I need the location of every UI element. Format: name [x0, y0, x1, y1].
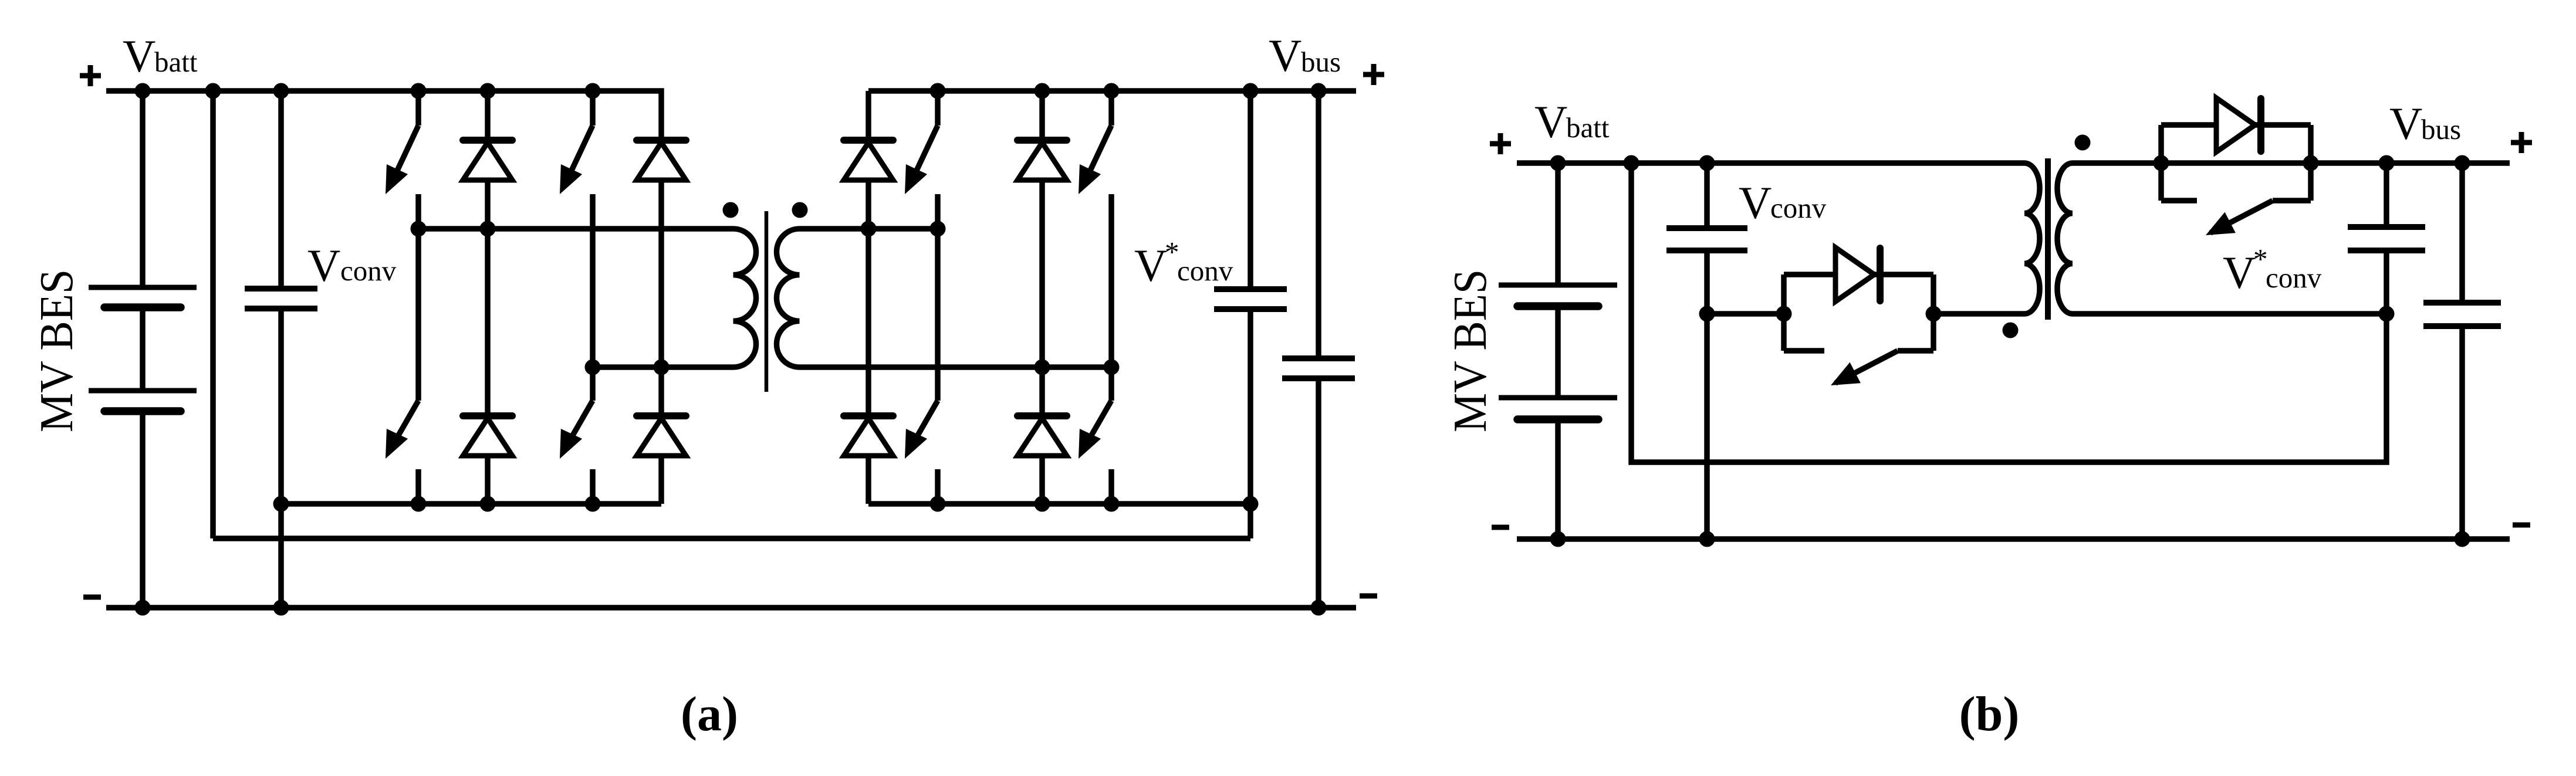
capacitor Vconv (b)	[1666, 228, 1747, 250]
battery MV BES (b)	[1499, 285, 1617, 419]
diode D10 (b)	[2216, 98, 2261, 152]
svg-text:MV BES: MV BES	[31, 269, 83, 432]
svg-text:batt: batt	[1566, 111, 1610, 144]
switch S4 (a)	[560, 401, 593, 459]
diode D4 (a)	[637, 416, 686, 456]
wire switch S3 column (a)	[590, 91, 596, 504]
wire combo box secondary (b)	[2161, 125, 2311, 201]
capacitor V*conv (a)	[1214, 289, 1287, 309]
junction dots (a)	[135, 83, 1327, 616]
svg-text:V: V	[307, 240, 340, 291]
node polarity dot primary (a)	[723, 202, 739, 218]
wire series-link column (a)	[210, 91, 216, 538]
svg-text:conv: conv	[1177, 255, 1233, 287]
wire secondary rail + winding L4 (b)	[2057, 163, 2510, 314]
svg-text:(b): (b)	[1959, 687, 2020, 741]
svg-text:batt: batt	[154, 46, 198, 78]
junction dots (b)	[1550, 155, 2470, 547]
wire secondary mid line + winding L2 (a)	[776, 229, 1111, 367]
switch Q2 (b)	[2206, 201, 2273, 235]
wire Vbus capacitor column (a)	[1316, 91, 1321, 608]
svg-text:V: V	[1134, 240, 1167, 291]
switch S2 (a)	[386, 401, 418, 459]
switch S1 (a)	[386, 126, 418, 194]
svg-text:(a): (a)	[681, 687, 738, 741]
switch S7 (a)	[1079, 126, 1111, 194]
svg-text:V: V	[123, 31, 155, 82]
node + terminal Vbatt (b)	[1490, 133, 1511, 154]
switch S3 (a)	[560, 126, 593, 194]
node + terminal Vbus (a)	[1363, 64, 1384, 85]
node + terminal Vbus (b)	[2511, 132, 2532, 153]
diode D7 (a)	[1017, 140, 1067, 180]
wire diode leg D3 lower column (a)	[658, 367, 664, 504]
wire battery column (b)	[1555, 163, 1561, 539]
wire top rail + primary winding L3 (b)	[1517, 163, 2040, 314]
diode D6 (a)	[844, 416, 893, 456]
transformer core (a)	[765, 211, 769, 392]
svg-text:V: V	[2223, 247, 2256, 298]
wire bottom rail (a)	[106, 605, 1356, 611]
switch S8 (a)	[1079, 401, 1111, 459]
node - terminal left (b)	[1492, 525, 1509, 530]
diode D2 (a)	[463, 416, 512, 456]
diode D8 (a)	[1017, 416, 1067, 456]
wire switch S5 column (a)	[935, 91, 941, 504]
wire V*conv capacitor column (b)	[2384, 163, 2389, 314]
svg-text:conv: conv	[1770, 192, 1827, 224]
diode D3 (a)	[637, 140, 686, 180]
node polarity dot secondary (b)	[2075, 135, 2091, 151]
wire bridge dc- rail left (a)	[281, 501, 661, 507]
diode D1 (a)	[463, 140, 512, 180]
svg-text:MV BES: MV BES	[1445, 269, 1496, 432]
svg-text:bus: bus	[1301, 46, 1341, 78]
wire combo box primary (b)	[1784, 275, 1933, 351]
wire top rail right (a)	[868, 88, 1356, 94]
wire Vconv capacitor column (b)	[1704, 163, 1710, 539]
transformer core (b)	[2045, 158, 2051, 320]
diode D5 (a)	[844, 140, 893, 180]
svg-text:conv: conv	[340, 255, 397, 287]
wire bridge dc- rail right (a)	[868, 501, 1250, 507]
capacitor V*conv (b)	[2348, 227, 2425, 250]
wire switch S7 column (a)	[1108, 91, 1114, 504]
switch S6 (a)	[905, 401, 938, 459]
wire battery column (a)	[140, 91, 146, 608]
wire top rail left (a) with corner into diode leg	[106, 91, 661, 367]
capacitor Vbus (a)	[1282, 358, 1355, 378]
node + terminal Vbatt (a)	[80, 65, 101, 86]
node polarity dot primary (b)	[2003, 323, 2019, 338]
wire V*conv capacitor column (a)	[1248, 91, 1253, 538]
wire diode leg D1 column (a)	[485, 91, 491, 504]
wire primary mid line + winding L1 (a)	[418, 229, 756, 367]
diode D9 (b)	[1835, 248, 1880, 301]
wire diode leg D5 column (a)	[866, 91, 871, 504]
capacitor Vconv (a)	[245, 289, 317, 309]
wire Vconv capacitor column (a)	[278, 91, 284, 608]
wire return line (a)	[213, 536, 1250, 541]
wire switch S1 top column (a)	[415, 91, 421, 504]
node - terminal right (b)	[2513, 523, 2530, 528]
svg-text:V: V	[1534, 96, 1567, 147]
node polarity dot secondary (a)	[792, 202, 808, 218]
svg-text:V: V	[1739, 177, 1772, 228]
svg-text:bus: bus	[2421, 113, 2461, 145]
wire primary mid line (b)	[1707, 311, 1784, 317]
wire bottom rail (b)	[1517, 536, 2510, 542]
wire diode leg D7 column (a)	[1039, 91, 1045, 504]
switch Q1 (b)	[1831, 351, 1898, 385]
battery MV BES (a)	[89, 287, 197, 411]
switch S5 (a)	[905, 126, 938, 194]
svg-text:conv: conv	[2266, 262, 2322, 294]
capacitor Vbus (b)	[2423, 303, 2501, 326]
node - terminal left (a)	[83, 595, 101, 600]
svg-text:V: V	[1269, 30, 1301, 81]
wire series-link column + return line (b)	[1631, 163, 2386, 462]
wire Vbus capacitor column (b)	[2459, 163, 2465, 539]
svg-text:V: V	[2389, 98, 2422, 149]
node - terminal right (a)	[1360, 594, 1377, 599]
